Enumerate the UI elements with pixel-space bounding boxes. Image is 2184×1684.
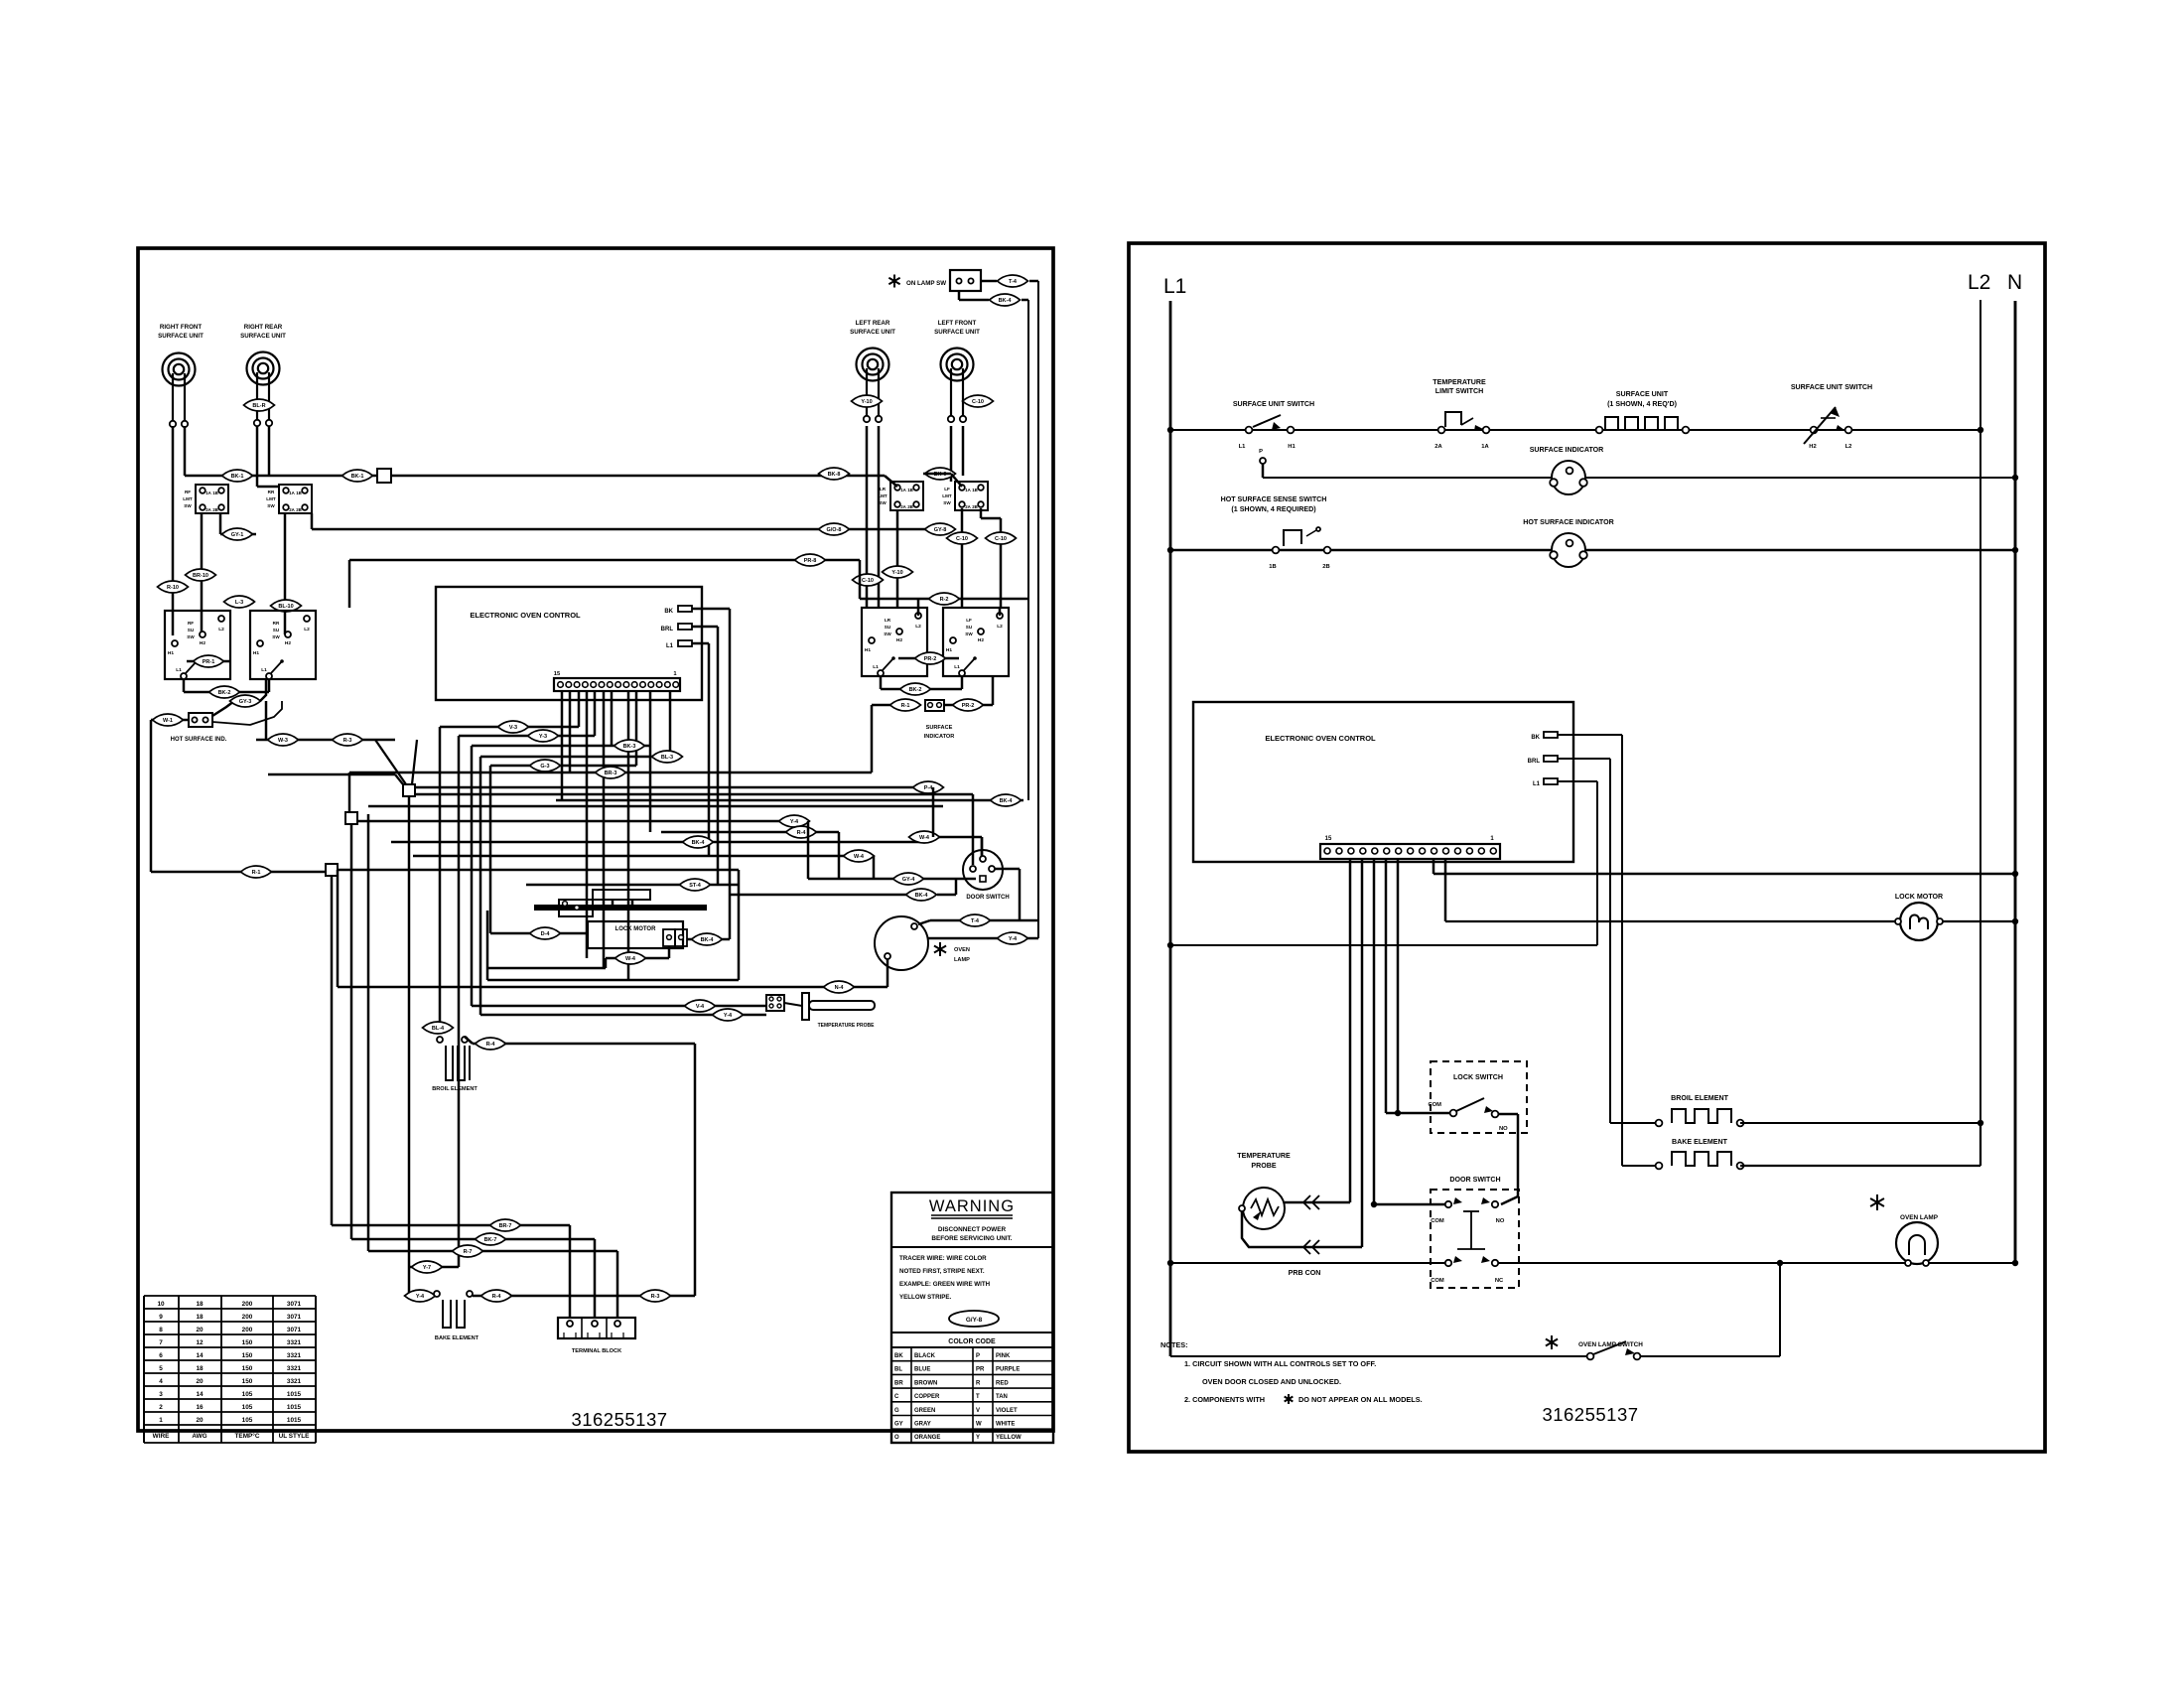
svg-text:LOCK MOTOR: LOCK MOTOR (1895, 893, 1943, 901)
svg-text:NOTES:: NOTES: (1160, 1340, 1188, 1349)
svg-text:V: V (976, 1408, 980, 1414)
svg-text:2B: 2B (907, 504, 913, 509)
svg-text:PR-2: PR-2 (924, 656, 937, 662)
svg-text:16: 16 (196, 1404, 204, 1411)
svg-text:T: T (976, 1394, 980, 1400)
svg-text:(1 SHOWN, 4 REQUIRED): (1 SHOWN, 4 REQUIRED) (1231, 505, 1316, 513)
svg-text:Y-4: Y-4 (724, 1013, 733, 1019)
svg-text:PR-8: PR-8 (804, 558, 817, 564)
svg-text:20: 20 (196, 1417, 204, 1424)
svg-text:GY-4: GY-4 (902, 877, 915, 883)
svg-text:L2: L2 (915, 624, 921, 630)
svg-text:18: 18 (196, 1301, 204, 1308)
svg-text:PRB CON: PRB CON (1289, 1269, 1321, 1277)
svg-text:P: P (1259, 449, 1263, 455)
svg-text:ST-4: ST-4 (689, 883, 702, 889)
svg-text:1B: 1B (972, 488, 978, 492)
svg-text:1: 1 (159, 1417, 163, 1424)
svg-text:RR: RR (273, 621, 280, 626)
svg-text:SURFACE UNIT: SURFACE UNIT (850, 329, 895, 336)
svg-text:105: 105 (242, 1404, 253, 1411)
svg-text:R-1: R-1 (252, 870, 261, 876)
svg-text:150: 150 (242, 1365, 253, 1372)
svg-text:SURFACE UNIT: SURFACE UNIT (240, 333, 286, 340)
svg-text:BK-4: BK-4 (1000, 798, 1014, 804)
svg-text:O: O (894, 1435, 899, 1441)
svg-text:105: 105 (242, 1391, 253, 1398)
svg-text:H1: H1 (253, 650, 259, 656)
svg-text:L1: L1 (1239, 444, 1247, 450)
svg-text:SU: SU (966, 625, 973, 630)
svg-text:SURFACE UNIT: SURFACE UNIT (158, 333, 204, 340)
svg-text:1A: 1A (205, 491, 211, 495)
svg-text:18: 18 (196, 1314, 204, 1321)
svg-text:3071: 3071 (287, 1301, 302, 1308)
svg-text:H2: H2 (978, 637, 984, 643)
svg-text:YELLOW STRIPE.: YELLOW STRIPE. (899, 1294, 952, 1301)
svg-text:UL STYLE: UL STYLE (279, 1433, 311, 1440)
svg-text:2A: 2A (900, 504, 906, 509)
svg-text:V-4: V-4 (696, 1004, 705, 1010)
svg-text:L1: L1 (261, 667, 267, 673)
svg-text:SW: SW (187, 634, 195, 639)
svg-text:INDICATOR: INDICATOR (924, 734, 955, 740)
svg-text:L2: L2 (1845, 444, 1852, 450)
svg-text:3: 3 (159, 1391, 163, 1398)
svg-text:TEMPERATURE PROBE: TEMPERATURE PROBE (818, 1023, 876, 1029)
svg-text:14: 14 (196, 1352, 204, 1359)
svg-text:BK-1: BK-1 (351, 474, 364, 480)
svg-text:ELECTRONIC OVEN CONTROL: ELECTRONIC OVEN CONTROL (470, 611, 581, 620)
svg-text:VIOLET: VIOLET (996, 1408, 1018, 1414)
svg-text:200: 200 (242, 1301, 253, 1308)
svg-text:14: 14 (196, 1391, 204, 1398)
svg-text:20: 20 (196, 1378, 204, 1385)
svg-text:SW: SW (267, 503, 275, 508)
svg-text:BL-R: BL-R (252, 403, 265, 409)
svg-text:4: 4 (159, 1378, 163, 1385)
svg-text:BROIL ELEMENT: BROIL ELEMENT (1671, 1094, 1728, 1102)
svg-text:SURFACE UNIT SWITCH: SURFACE UNIT SWITCH (1233, 400, 1314, 408)
svg-text:OVEN LAMP: OVEN LAMP (1900, 1214, 1939, 1221)
svg-text:SW: SW (884, 631, 891, 636)
svg-text:L2: L2 (997, 624, 1003, 630)
svg-text:NOTED FIRST, STRIPE NEXT.: NOTED FIRST, STRIPE NEXT. (899, 1268, 985, 1275)
svg-text:RF: RF (188, 621, 194, 626)
svg-text:G/O-8: G/O-8 (827, 527, 842, 533)
svg-text:R-7: R-7 (464, 1249, 473, 1255)
svg-text:SW: SW (965, 631, 973, 636)
svg-text:150: 150 (242, 1339, 253, 1346)
svg-text:15: 15 (554, 671, 561, 677)
svg-text:BLUE: BLUE (914, 1367, 930, 1373)
svg-text:PROBE: PROBE (1251, 1162, 1276, 1170)
svg-text:3321: 3321 (287, 1378, 302, 1385)
svg-text:NO: NO (1496, 1218, 1505, 1224)
svg-text:H2: H2 (896, 637, 902, 643)
svg-text:HOT SURFACE INDICATOR: HOT SURFACE INDICATOR (1523, 518, 1614, 526)
svg-text:EXAMPLE: GREEN WIRE WITH: EXAMPLE: GREEN WIRE WITH (899, 1281, 991, 1288)
svg-text:Y-4: Y-4 (416, 1294, 425, 1300)
svg-text:GY: GY (894, 1422, 903, 1428)
svg-text:BK-2: BK-2 (218, 690, 231, 696)
svg-text:SURFACE UNIT: SURFACE UNIT (1616, 390, 1669, 398)
svg-text:9: 9 (159, 1314, 163, 1321)
svg-text:BAKE ELEMENT: BAKE ELEMENT (1672, 1138, 1728, 1146)
svg-text:WHITE: WHITE (996, 1422, 1015, 1428)
svg-text:1B: 1B (907, 488, 913, 492)
svg-text:2B: 2B (972, 504, 978, 509)
svg-text:BR-7: BR-7 (499, 1223, 512, 1229)
svg-text:Y: Y (976, 1435, 980, 1441)
svg-text:1B: 1B (1269, 564, 1276, 570)
svg-text:L1: L1 (176, 667, 182, 673)
svg-text:BL-10: BL-10 (278, 604, 293, 610)
svg-text:150: 150 (242, 1378, 253, 1385)
svg-text:RIGHT REAR: RIGHT REAR (244, 324, 283, 331)
svg-text:BRL: BRL (1528, 759, 1541, 765)
svg-text:316255137: 316255137 (1542, 1404, 1638, 1425)
svg-text:LMT: LMT (942, 493, 952, 498)
svg-text:8: 8 (159, 1327, 163, 1333)
svg-text:GREEN: GREEN (914, 1408, 935, 1414)
svg-text:TRACER WIRE: WIRE COLOR: TRACER WIRE: WIRE COLOR (899, 1255, 987, 1262)
svg-text:Y-4: Y-4 (790, 819, 799, 825)
svg-text:T-4: T-4 (1009, 279, 1018, 285)
svg-text:PR-1: PR-1 (203, 659, 215, 665)
svg-text:H1: H1 (168, 650, 174, 656)
svg-text:BK-4: BK-4 (692, 840, 706, 846)
svg-text:SURFACE INDICATOR: SURFACE INDICATOR (1530, 446, 1604, 454)
svg-text:BK-2: BK-2 (909, 687, 922, 693)
svg-text:BK: BK (1531, 735, 1540, 741)
svg-text:DOOR SWITCH: DOOR SWITCH (1449, 1176, 1500, 1184)
svg-text:SU: SU (885, 625, 891, 630)
svg-text:2A: 2A (965, 504, 971, 509)
svg-text:GY-3: GY-3 (239, 699, 252, 705)
svg-text:LR: LR (885, 618, 891, 623)
svg-text:SW: SW (879, 500, 887, 505)
svg-text:2A: 2A (205, 507, 211, 512)
svg-text:RR: RR (268, 490, 275, 494)
svg-text:LEFT FRONT: LEFT FRONT (938, 320, 977, 327)
svg-text:G-3: G-3 (540, 764, 549, 770)
svg-text:2A: 2A (289, 507, 295, 512)
svg-text:W: W (976, 1422, 982, 1428)
svg-text:C-10: C-10 (862, 578, 874, 584)
svg-text:LAMP: LAMP (954, 957, 970, 963)
svg-text:RED: RED (996, 1380, 1009, 1386)
svg-text:BL-3: BL-3 (661, 755, 673, 761)
svg-text:5: 5 (159, 1365, 163, 1372)
svg-text:G: G (894, 1408, 899, 1414)
svg-text:H1: H1 (946, 647, 952, 653)
svg-text:12: 12 (196, 1339, 204, 1346)
svg-text:BEFORE SERVICING UNIT.: BEFORE SERVICING UNIT. (931, 1235, 1012, 1242)
svg-text:COLOR CODE: COLOR CODE (948, 1338, 996, 1345)
svg-text:1015: 1015 (287, 1404, 302, 1411)
svg-text:LF: LF (944, 487, 950, 491)
svg-text:SURFACE: SURFACE (926, 725, 953, 731)
svg-text:COM: COM (1428, 1102, 1441, 1108)
svg-text:TAN: TAN (996, 1394, 1008, 1400)
svg-text:1A: 1A (1481, 444, 1489, 450)
svg-text:SURFACE UNIT: SURFACE UNIT (934, 329, 980, 336)
svg-text:SW: SW (943, 500, 951, 505)
svg-text:1A: 1A (965, 488, 971, 492)
svg-text:R-3: R-3 (343, 738, 352, 744)
svg-text:6: 6 (159, 1352, 163, 1359)
svg-text:ORANGE: ORANGE (914, 1435, 940, 1441)
svg-text:3321: 3321 (287, 1365, 302, 1372)
svg-text:N: N (2007, 271, 2022, 294)
svg-text:Y-7: Y-7 (423, 1265, 431, 1271)
svg-text:R-2: R-2 (940, 597, 949, 603)
svg-text:200: 200 (242, 1314, 253, 1321)
svg-text:20: 20 (196, 1327, 204, 1333)
svg-text:L1: L1 (1163, 275, 1186, 298)
svg-text:L1: L1 (873, 664, 879, 670)
svg-text:BK: BK (664, 609, 673, 615)
svg-text:C-10: C-10 (972, 399, 984, 405)
svg-text:COM: COM (1431, 1278, 1444, 1284)
svg-text:HOT SURFACE SENSE SWITCH: HOT SURFACE SENSE SWITCH (1221, 495, 1327, 503)
svg-text:H1: H1 (1288, 444, 1296, 450)
svg-text:200: 200 (242, 1327, 253, 1333)
svg-text:W-1: W-1 (163, 718, 173, 724)
svg-text:LF: LF (966, 618, 972, 623)
svg-text:D-4: D-4 (541, 931, 551, 937)
svg-text:H2: H2 (285, 640, 291, 646)
svg-text:L1: L1 (954, 664, 960, 670)
svg-text:WARNING: WARNING (929, 1197, 1015, 1215)
svg-text:Y-10: Y-10 (861, 399, 872, 405)
svg-text:SURFACE UNIT SWITCH: SURFACE UNIT SWITCH (1791, 383, 1872, 391)
svg-text:BRL: BRL (661, 627, 674, 632)
svg-text:SW: SW (184, 503, 192, 508)
svg-text:Y-4: Y-4 (1009, 936, 1018, 942)
svg-text:TEMPERATURE: TEMPERATURE (1433, 378, 1486, 386)
svg-text:316255137: 316255137 (571, 1409, 667, 1430)
svg-text:BK: BK (894, 1353, 903, 1359)
svg-text:1A: 1A (289, 491, 295, 495)
svg-text:1A: 1A (900, 488, 906, 492)
svg-text:C-10: C-10 (956, 536, 968, 542)
svg-text:TERMINAL BLOCK: TERMINAL BLOCK (572, 1348, 621, 1354)
svg-text:SU: SU (273, 628, 280, 632)
svg-text:COM: COM (1431, 1218, 1444, 1224)
svg-text:BR-10: BR-10 (193, 573, 208, 579)
svg-text:C: C (894, 1394, 899, 1400)
svg-text:N-4: N-4 (835, 985, 845, 991)
svg-text:L1: L1 (1533, 781, 1541, 787)
svg-text:BK-4: BK-4 (915, 893, 929, 899)
svg-text:R-4: R-4 (797, 830, 807, 836)
svg-text:105: 105 (242, 1417, 253, 1424)
svg-text:BROIL ELEMENT: BROIL ELEMENT (432, 1086, 478, 1092)
svg-text:YELLOW: YELLOW (996, 1435, 1022, 1441)
svg-text:W-4: W-4 (854, 854, 865, 860)
svg-text:3071: 3071 (287, 1327, 302, 1333)
svg-text:OVEN LAMP SWITCH: OVEN LAMP SWITCH (1578, 1341, 1643, 1348)
svg-text:P: P (976, 1353, 980, 1359)
svg-text:T-4: T-4 (971, 918, 980, 924)
svg-text:PURPLE: PURPLE (996, 1367, 1020, 1373)
svg-text:1015: 1015 (287, 1417, 302, 1424)
svg-text:DO NOT APPEAR ON ALL MODELS.: DO NOT APPEAR ON ALL MODELS. (1298, 1395, 1423, 1404)
svg-text:7: 7 (159, 1339, 163, 1346)
svg-text:H2: H2 (1809, 444, 1816, 450)
svg-text:BROWN: BROWN (914, 1380, 937, 1386)
svg-text:LOCK MOTOR: LOCK MOTOR (615, 926, 657, 932)
svg-text:2B: 2B (296, 507, 302, 512)
svg-text:1B: 1B (296, 491, 302, 495)
svg-text:OVEN: OVEN (954, 947, 970, 953)
svg-text:2. COMPONENTS WITH: 2. COMPONENTS WITH (1184, 1395, 1265, 1404)
svg-text:NC: NC (1495, 1278, 1504, 1284)
svg-text:BK-4: BK-4 (701, 937, 715, 943)
svg-text:SW: SW (272, 634, 280, 639)
svg-text:G/Y-8: G/Y-8 (966, 1317, 983, 1324)
svg-text:H2: H2 (200, 640, 205, 646)
svg-text:W-3: W-3 (278, 738, 288, 744)
svg-text:L-3: L-3 (235, 600, 243, 606)
svg-text:LMT: LMT (266, 496, 276, 501)
svg-text:TEMP°C: TEMP°C (235, 1432, 260, 1440)
svg-text:LOCK SWITCH: LOCK SWITCH (1453, 1073, 1503, 1081)
svg-text:L2: L2 (1968, 271, 1990, 294)
svg-text:AWG: AWG (192, 1433, 206, 1440)
svg-text:2A: 2A (1434, 444, 1442, 450)
svg-text:GRAY: GRAY (914, 1422, 931, 1428)
svg-text:WIRE: WIRE (153, 1433, 170, 1440)
svg-text:ON LAMP SW: ON LAMP SW (906, 280, 946, 287)
svg-text:1. CIRCUIT SHOWN WITH ALL CON: 1. CIRCUIT SHOWN WITH ALL CONTROLS SET T… (1184, 1359, 1376, 1368)
svg-text:R-3: R-3 (651, 1294, 660, 1300)
svg-text:BR: BR (894, 1380, 903, 1386)
svg-text:2: 2 (159, 1404, 163, 1411)
svg-text:BK-8: BK-8 (828, 472, 841, 478)
svg-text:NO: NO (1499, 1126, 1508, 1132)
svg-text:RIGHT FRONT: RIGHT FRONT (160, 324, 202, 331)
svg-text:PR: PR (976, 1367, 985, 1373)
svg-text:BK-7: BK-7 (484, 1237, 497, 1243)
svg-text:GY-8: GY-8 (934, 527, 947, 533)
svg-text:BK-3: BK-3 (623, 744, 636, 750)
svg-text:SU: SU (188, 628, 195, 632)
svg-text:150: 150 (242, 1352, 253, 1359)
svg-text:PINK: PINK (996, 1353, 1011, 1359)
svg-text:18: 18 (196, 1365, 204, 1372)
svg-text:3321: 3321 (287, 1339, 302, 1346)
svg-text:DOOR SWITCH: DOOR SWITCH (966, 895, 1009, 901)
svg-text:DISCONNECT POWER: DISCONNECT POWER (938, 1226, 1007, 1233)
svg-text:OVEN DOOR CLOSED AND UNLOCKED.: OVEN DOOR CLOSED AND UNLOCKED. (1202, 1377, 1341, 1386)
svg-text:R-4: R-4 (486, 1042, 496, 1048)
svg-text:(1 SHOWN, 4 REQ'D): (1 SHOWN, 4 REQ'D) (1607, 400, 1678, 408)
svg-text:L1: L1 (666, 643, 674, 649)
svg-text:LMT: LMT (183, 496, 193, 501)
svg-text:BAKE ELEMENT: BAKE ELEMENT (435, 1335, 479, 1341)
svg-text:BK-1: BK-1 (231, 474, 244, 480)
svg-text:2B: 2B (1322, 564, 1329, 570)
svg-text:LR: LR (880, 487, 887, 491)
svg-text:RF: RF (185, 490, 191, 494)
svg-text:LEFT REAR: LEFT REAR (856, 320, 890, 327)
svg-text:1015: 1015 (287, 1391, 302, 1398)
svg-text:R: R (976, 1380, 981, 1386)
svg-text:Y-3: Y-3 (539, 734, 547, 740)
svg-text:R-10: R-10 (167, 585, 179, 591)
svg-text:COPPER: COPPER (914, 1394, 940, 1400)
svg-text:10: 10 (157, 1301, 165, 1308)
svg-text:1B: 1B (212, 491, 218, 495)
svg-text:15: 15 (1325, 836, 1332, 842)
svg-text:BL: BL (894, 1367, 902, 1373)
svg-text:BLACK: BLACK (914, 1353, 936, 1359)
svg-text:R-1: R-1 (901, 703, 910, 709)
svg-text:LIMIT SWITCH: LIMIT SWITCH (1435, 387, 1483, 395)
svg-text:L2: L2 (218, 627, 224, 632)
svg-text:H1: H1 (865, 647, 871, 653)
svg-text:R-4: R-4 (492, 1294, 502, 1300)
svg-text:LMT: LMT (878, 493, 887, 498)
svg-text:Y-10: Y-10 (891, 570, 902, 576)
svg-text:L2: L2 (304, 627, 310, 632)
svg-text:3321: 3321 (287, 1352, 302, 1359)
svg-text:GY-1: GY-1 (231, 532, 244, 538)
svg-text:3071: 3071 (287, 1314, 302, 1321)
svg-text:2B: 2B (212, 507, 218, 512)
svg-text:HOT SURFACE IND.: HOT SURFACE IND. (171, 737, 227, 743)
svg-text:W-4: W-4 (919, 835, 930, 841)
svg-text:BL-4: BL-4 (432, 1026, 445, 1032)
svg-text:V-3: V-3 (509, 725, 517, 731)
svg-text:PR-2: PR-2 (962, 703, 975, 709)
svg-text:BK-4: BK-4 (999, 298, 1013, 304)
svg-text:ELECTRONIC OVEN CONTROL: ELECTRONIC OVEN CONTROL (1265, 734, 1376, 743)
svg-text:TEMPERATURE: TEMPERATURE (1237, 1152, 1291, 1160)
svg-text:BR-3: BR-3 (605, 771, 617, 776)
svg-text:W-4: W-4 (625, 956, 636, 962)
svg-text:C-10: C-10 (995, 536, 1007, 542)
